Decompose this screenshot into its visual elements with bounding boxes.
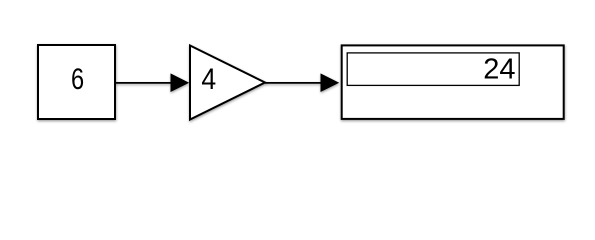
arrowhead into gain [171,73,190,92]
constant block "6" [38,45,115,119]
wire from gain to display [265,73,339,92]
display block [342,45,564,119]
arrowhead into display [321,73,340,92]
svg-text:4: 4 [201,63,216,96]
display value field [347,53,519,86]
gain block (triangle) [190,46,265,120]
svg-text:24: 24 [483,54,515,86]
svg-text:6: 6 [71,62,84,95]
wire from constant to gain [115,73,189,92]
